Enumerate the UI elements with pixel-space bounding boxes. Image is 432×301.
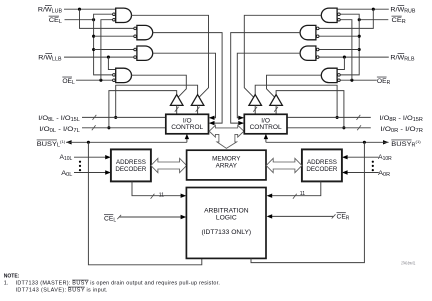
junction upper bus right <box>336 116 339 119</box>
arrow 11-bus into arbitration right <box>267 194 273 198</box>
arrow 11-bus into arbitration left <box>181 194 187 198</box>
slash 11-bus left <box>151 194 155 199</box>
arrow BUSYL out <box>66 140 72 144</box>
bubble U3 pin1 <box>134 48 137 51</box>
junction upper bus left <box>114 116 117 119</box>
wire R/WLUB input <box>64 8 116 10</box>
wire BUSYR to I/O control <box>265 135 267 143</box>
junction lower bus left <box>107 126 110 129</box>
junction R/WRLB <box>343 56 346 59</box>
wire tri2 to I/O control <box>197 105 199 114</box>
arrow A0R into decoder <box>342 170 348 174</box>
I/O control box left <box>166 114 209 134</box>
svg-text:11: 11 <box>300 191 305 197</box>
junction OEL <box>99 79 102 82</box>
junction BUSYL <box>87 141 90 144</box>
svg-text:ADDRESS: ADDRESS <box>116 159 146 166</box>
wire A10R <box>347 156 379 158</box>
dots A-left ellipsis <box>79 161 81 163</box>
svg-text:DECODER: DECODER <box>306 166 337 173</box>
junction BUSYR <box>363 141 366 144</box>
bubble U4 pin3 <box>113 79 116 82</box>
bubble U2 pin1 <box>134 27 137 30</box>
arrow A10R into decoder <box>342 155 348 159</box>
arrow CER into arbitration <box>267 214 273 218</box>
svg-text:CER: CER <box>392 17 407 25</box>
wire lower byte bus left <box>109 91 177 128</box>
svg-text:I/O0R - I/O7R: I/O0R - I/O7R <box>381 126 424 134</box>
wire R/WLUB to gate U2 <box>80 9 134 28</box>
and-gate U8 <box>321 68 337 82</box>
svg-text:I/O0L - I/O7L: I/O0L - I/O7L <box>39 126 80 134</box>
wire U4 output to buffer enable <box>131 75 186 97</box>
slash I/O8L bus width <box>93 115 97 120</box>
arrow BUSYL into I/O control <box>185 134 189 139</box>
wire CEL bus down <box>94 20 113 75</box>
bubble U8 pin3 <box>338 79 341 82</box>
slash 11-bus right <box>293 194 297 199</box>
wire CER to gate U6 <box>319 35 359 37</box>
wire CER to arbitration <box>271 215 333 217</box>
svg-text:IDT7143 (SLAVE): BUSY is input: IDT7143 (SLAVE): BUSY is input. <box>16 288 108 294</box>
wire I/O0L-I/O7L <box>82 127 166 129</box>
bubble U7 pin2 <box>316 56 319 59</box>
arrow A10L into decoder <box>105 155 111 159</box>
junction R/WRUB <box>372 8 375 11</box>
svg-text:CER: CER <box>337 214 350 222</box>
wire CER bus down <box>340 20 359 75</box>
junction CER-U7 <box>358 48 361 51</box>
wire R/WRLB input <box>319 56 389 58</box>
junction OER <box>350 79 353 82</box>
svg-text:A0R: A0R <box>378 170 390 178</box>
junction CEL-U3 <box>92 48 95 51</box>
junction CEL <box>92 18 95 21</box>
wire BUSYL <box>66 141 187 143</box>
arrow CEL into arbitration <box>181 215 187 219</box>
slash I/O0R bus width <box>357 125 361 130</box>
svg-text:DECODER: DECODER <box>115 166 146 173</box>
svg-text:LOGIC: LOGIC <box>216 215 237 222</box>
svg-text:A0L: A0L <box>61 170 72 178</box>
and-gate U1 <box>116 8 132 22</box>
svg-text:R/WLUB: R/WLUB <box>38 7 63 15</box>
wire U6 output to I/O control <box>231 33 301 124</box>
wire A0L <box>74 172 106 174</box>
slash tri1 bus <box>175 107 179 112</box>
label 2746 drw 01 <box>401 261 415 266</box>
junction R/WLLB <box>107 56 110 59</box>
bubble U1 pin3 <box>113 18 116 21</box>
buffer tri4 <box>270 95 283 106</box>
svg-text:CEL: CEL <box>49 17 63 25</box>
wire U5 output to buffer enable <box>244 15 321 97</box>
svg-text:MEMORY: MEMORY <box>212 156 241 163</box>
address decoder box right <box>302 149 342 181</box>
bubble U2 pin2 <box>134 35 137 38</box>
svg-text:A10L: A10L <box>59 154 72 162</box>
wire U3 output to I/O control <box>153 53 216 118</box>
and-gate U3 <box>137 46 153 60</box>
wire tri3 to I/O control <box>254 105 256 114</box>
arrow U2 into I/O control <box>209 121 215 125</box>
svg-text:11: 11 <box>159 193 164 199</box>
wire A10L <box>74 156 106 158</box>
wire CER to gate U5 <box>340 14 359 20</box>
wire A0R <box>347 172 379 174</box>
wire CEL to gate U3 <box>94 49 134 51</box>
wire CEL to arbitration <box>120 216 182 218</box>
svg-text:OER: OER <box>377 78 391 86</box>
svg-text:(IDT7133 ONLY): (IDT7133 ONLY) <box>201 229 251 236</box>
junction CEL-U2 <box>92 35 95 38</box>
bubble U3 pin2 <box>134 56 137 59</box>
wire BUSYR <box>266 141 389 143</box>
arrow U7 into I/O control <box>238 116 244 120</box>
bubble U6 pin2 <box>316 35 319 38</box>
wire decoder to arbitration 11-bus right <box>271 181 320 195</box>
wire I/O8L-I/O15L <box>82 116 166 118</box>
junction CER <box>358 18 361 21</box>
wire R/WRUB to gate U6 <box>319 9 373 28</box>
arrow BUSYR into I/O control <box>264 134 268 139</box>
wire U1 output to buffer enable <box>131 15 208 97</box>
wire BUSYL to arbitration <box>88 142 201 264</box>
wire lower byte bus right <box>276 91 344 128</box>
svg-text:R/WLLB: R/WLLB <box>38 54 62 62</box>
wire upper byte bus right <box>255 85 337 117</box>
wire R/WRLB to gate U8 <box>337 57 344 69</box>
svg-text:A10R: A10R <box>378 154 392 162</box>
bubble U5 pin3 <box>338 18 341 21</box>
wire BUSYR to arbitration <box>251 142 364 262</box>
svg-text:ARBITRATION: ARBITRATION <box>204 208 249 215</box>
and-gate U6 <box>300 25 316 39</box>
wire decoder to arbitration 11-bus left <box>132 181 181 195</box>
arrow U6 into I/O control <box>238 121 244 125</box>
svg-text:1.: 1. <box>4 281 9 287</box>
bubble U5 pin2 <box>338 13 341 16</box>
svg-text:I/O8R - I/O15R: I/O8R - I/O15R <box>380 115 424 123</box>
slash CER note <box>332 214 336 218</box>
and-gate U4 <box>116 68 132 82</box>
svg-text:OEL: OEL <box>62 78 75 86</box>
wire tri1 to I/O control <box>176 105 178 114</box>
junction R/WLUB <box>78 8 81 11</box>
svg-text:CONTROL: CONTROL <box>171 124 203 131</box>
wire R/WRUB input <box>337 8 389 10</box>
wire OEL to gate U1 <box>101 20 113 80</box>
junction lower bus right <box>342 126 345 129</box>
svg-text:IDT7133 (MASTER): BUSY is open: IDT7133 (MASTER): BUSY is open drain out… <box>16 281 220 287</box>
wire CEL input <box>65 19 94 21</box>
wire tri4 to I/O control <box>275 105 277 114</box>
svg-text:ADDRESS: ADDRESS <box>307 159 337 166</box>
wire CEL to gate U2 <box>94 35 134 37</box>
svg-text:I/O8L - I/O15L: I/O8L - I/O15L <box>38 115 80 123</box>
svg-text:ARRAY: ARRAY <box>216 163 238 170</box>
buffer tri1 <box>170 95 183 106</box>
slash I/O0L bus width <box>92 125 96 130</box>
wire U7 output to I/O control <box>237 53 300 118</box>
wire OER input <box>340 79 377 81</box>
arrow A0L into decoder <box>105 170 111 174</box>
wire I/O8R-I/O15R <box>287 116 371 118</box>
wire R/WLLB to gate U4 <box>108 57 115 69</box>
wire R/WLLB input <box>64 56 134 58</box>
buffer tri3 <box>249 95 262 106</box>
wire U2 output to I/O control <box>153 33 223 124</box>
wire CEL to gate U1 <box>94 14 113 20</box>
and-gate U7 <box>300 46 316 60</box>
bubble U7 pin1 <box>316 48 319 51</box>
I/O control box right <box>244 114 287 134</box>
bubble U4 pin2 <box>113 74 116 77</box>
wire OEL input <box>76 79 113 81</box>
hollow arrow memory-decoder right <box>266 158 302 172</box>
slash I/O8R bus width <box>357 115 361 120</box>
and-gate U5 <box>321 8 337 22</box>
slash CEL note <box>117 215 121 219</box>
hollow arrow decoder-memory left <box>151 158 187 172</box>
arrow U3 into I/O control <box>209 116 215 120</box>
wire OER to gate U5 <box>340 20 352 80</box>
svg-text:R/WRUB: R/WRUB <box>390 7 416 15</box>
buffer tri2 <box>191 95 204 106</box>
wire CER to gate U7 <box>319 49 359 51</box>
wire I/O0R-I/O7R <box>287 127 371 129</box>
arbitration logic box <box>186 188 266 259</box>
svg-text:CONTROL: CONTROL <box>250 124 282 131</box>
svg-text:2746 drw 01: 2746 drw 01 <box>401 261 415 266</box>
arrow BUSYR out <box>383 140 389 144</box>
slash tri4 bus <box>274 107 278 112</box>
hollow 3-way arrow I/O control to memory <box>209 125 244 148</box>
bubble U8 pin2 <box>338 74 341 77</box>
address decoder box left <box>111 149 151 181</box>
wire upper byte bus left <box>116 85 198 117</box>
bubble U6 pin1 <box>316 27 319 30</box>
svg-text:R/WRLB: R/WRLB <box>390 54 415 62</box>
bubble U1 pin2 <box>113 13 116 16</box>
wire CER input <box>359 19 388 21</box>
svg-text:CEL: CEL <box>104 216 116 224</box>
svg-text:NOTE:: NOTE: <box>4 274 20 280</box>
dots A-right ellipsis <box>372 161 374 163</box>
slash tri2 bus <box>196 107 200 112</box>
and-gate U2 <box>137 25 153 39</box>
slash tri3 bus <box>253 107 257 112</box>
wire BUSYL to I/O control <box>186 135 188 143</box>
junction CER-U6 <box>358 35 361 38</box>
wire U8 output to buffer enable <box>267 75 322 97</box>
memory array box <box>187 150 266 180</box>
